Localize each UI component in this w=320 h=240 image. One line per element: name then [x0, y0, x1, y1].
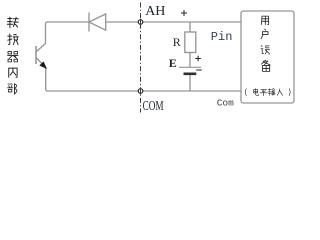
svg-text:Pin: Pin	[211, 30, 233, 44]
svg-text:E: E	[169, 56, 177, 70]
svg-text:Com: Com	[217, 98, 234, 109]
svg-text:AH: AH	[145, 4, 165, 19]
svg-text:R: R	[173, 35, 181, 49]
svg-text:COM: COM	[143, 99, 164, 114]
